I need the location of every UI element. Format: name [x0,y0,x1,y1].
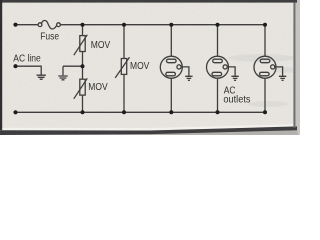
outlet O3 face circle [254,56,276,78]
node: ground/MOV2 junction [81,110,85,114]
svg-text:Fuse: Fuse [40,31,59,42]
MOV V1 body [80,36,85,52]
outlet O3 ground pin hole [271,65,275,69]
bottom white gap line [2,124,294,130]
outlet O2 ground pin hole [223,65,227,69]
wire: bottom ground bus [16,111,266,113]
fuse terminal circle left [38,23,42,27]
outlet O1 face circle [160,56,182,78]
node: ground/outlet O1 junction [169,110,173,114]
wire: outlet O2 ground lead [227,67,235,76]
MOV V3 body [121,59,126,75]
outlet O1 upper slot [167,59,177,63]
MOV V2 diagonal [74,78,88,99]
node: ground corner at outlet O3 [263,110,267,114]
outlet O1 lower slot [166,72,176,76]
wire: vertical MOV1/MOV2 branch [82,25,84,113]
wire: outlet O2 vertical taps [217,25,219,113]
paper background [0,0,300,135]
wire: outlet O3 vertical taps [264,25,266,113]
top border band [0,0,297,3]
bottom outer margin shadow [0,130,297,135]
paper grain texture [0,0,300,135]
wire: outlet O1 ground lead [181,67,189,76]
outlet O2 face circle [207,56,229,78]
node: hot corner at outlet O3 [263,23,267,27]
fuse terminal circle right [57,23,61,27]
node: ground/outlet O2 junction [216,110,220,114]
svg-text:MOV: MOV [130,60,150,71]
outlet O2 upper slot [213,59,223,63]
wire: top hot bus right segment [60,24,265,26]
node: AC line ground terminal [13,110,17,114]
wire: outlet O1 vertical taps [170,25,172,113]
svg-text:AC line: AC line [13,53,40,64]
ground symbol 1 (neutral ground) [37,75,46,79]
node: ground/MOV3 junction [122,110,126,114]
ground symbol 2 (MOV node ground) [58,76,67,80]
outlet O2 [207,25,239,113]
outlet O1 ground pin hole [177,65,181,69]
outlet O3 [254,25,286,113]
node: hot/MOV3 junction [122,23,126,27]
node: hot/MOV1 junction [81,23,85,27]
node: AC line neutral terminal [13,64,17,68]
ground symbol outlet O3 [279,76,286,80]
node: hot/outlet O1 junction [169,23,173,27]
right outer margin [296,0,300,135]
node: neutral/MOV junction [81,64,85,68]
wire: top hot bus left segment [16,24,39,26]
outlet O2 lower slot [212,72,222,76]
faint print bleed-through right side [228,54,297,107]
MOV V1 diagonal [74,35,88,56]
left border band [0,0,2,130]
fuse F (wavy element between terminals) [42,20,57,28]
bottom border band [0,126,297,135]
wire: neutral ground branch to node [63,66,83,75]
svg-text:outlets: outlets [223,94,250,105]
ground symbol outlet O1 [185,76,192,80]
outlet O3 upper slot [260,59,270,63]
node: hot/outlet O2 junction [216,23,220,27]
svg-text:MOV: MOV [91,39,111,50]
MOV V2 body [80,79,85,95]
wire: neutral from AC line to ground corner [16,66,42,74]
svg-text:MOV: MOV [88,82,108,93]
ground symbol outlet O2 [231,76,238,80]
right inner border [293,3,295,128]
wire: vertical MOV3 branch [123,25,125,113]
node: AC line hot terminal [13,23,17,27]
outlet O1 [160,25,192,113]
MOV V3 diagonal [115,57,129,78]
outlet O3 lower slot [260,72,270,76]
wire: outlet O3 ground lead [274,67,282,76]
